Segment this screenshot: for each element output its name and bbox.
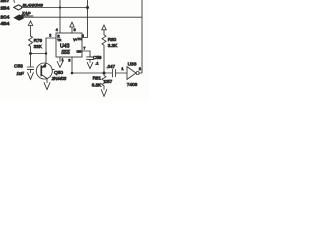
wire riser x60 to 555 pin4 (59, 0, 61, 33)
svg-text:.047: .047 (107, 64, 116, 69)
label R79 33K (34, 38, 43, 49)
svg-text:555: 555 (61, 50, 70, 56)
svg-text:33K: 33K (34, 44, 43, 49)
transistor Q50 (36, 63, 52, 83)
label 2N4403 (51, 76, 67, 81)
pin 3 output (68, 57, 72, 73)
node dot R80 R81 output (103, 72, 106, 75)
svg-text:3.3K: 3.3K (108, 43, 118, 48)
svg-text:U43: U43 (60, 44, 70, 50)
capacitor C58 (27, 54, 33, 73)
ground under Q50 collector (44, 83, 50, 90)
svg-text:2C4: 2C4 (1, 14, 10, 20)
capacitor C57 series (112, 69, 127, 77)
wire ZAP (23, 16, 142, 18)
output flag ZAP (14, 15, 23, 20)
wire BLANKING (22, 7, 88, 9)
node dot at pin4 riser (59, 6, 61, 8)
svg-text:.1: .1 (95, 61, 98, 65)
svg-text:2B4: 2B4 (1, 5, 10, 11)
power arrow above R80 (102, 25, 106, 35)
svg-text:C58: C58 (14, 64, 23, 70)
ground under C58 (28, 73, 34, 80)
svg-text:7406: 7406 (127, 82, 138, 87)
pin 8 power arrow (70, 22, 78, 42)
pin 7 discharge label (77, 47, 86, 54)
ground under C59 (87, 62, 93, 68)
label C58 1uF (14, 64, 24, 77)
svg-text:7: 7 (83, 47, 85, 51)
svg-text:3: 3 (68, 58, 70, 62)
resistor R80 (102, 35, 106, 73)
label R81 6.8K (92, 75, 102, 87)
svg-text:ZAP: ZAP (21, 11, 31, 16)
svg-text:R79: R79 (34, 38, 43, 43)
wire trigger node horizontal (31, 53, 47, 55)
label R80 3.3K (108, 37, 118, 48)
inverter U36 7406 (127, 67, 139, 80)
svg-text:DIS: DIS (77, 49, 82, 53)
net label ZAP (21, 11, 33, 16)
input flag BLANKING (14, 5, 22, 10)
svg-text:2B7: 2B7 (1, 0, 10, 4)
node dot pin3 output (71, 72, 74, 75)
node dot R79 bottom (29, 52, 32, 55)
ground under R81 (101, 89, 107, 96)
resistor R81 (102, 73, 106, 89)
net label BLANKING (23, 3, 43, 8)
pin 6 threshold label (77, 34, 83, 41)
label 2B4 (1, 5, 10, 11)
wire inverter output riser (139, 0, 142, 73)
svg-text:U36: U36 (128, 62, 137, 68)
op-amp U43 555 timer box (56, 33, 82, 57)
wire output to C57 (72, 72, 112, 74)
label .047 C57 (104, 64, 116, 84)
label U36 (128, 62, 137, 68)
wire riser x87 to 555 right pin (82, 0, 88, 38)
power arrow +V above R79 (28, 21, 32, 36)
svg-text:C59: C59 (93, 55, 102, 60)
label 4B4 (1, 21, 10, 27)
node dot trigger junction (45, 52, 47, 54)
wire to Q50 emitter (45, 54, 47, 64)
svg-text:2: 2 (49, 33, 51, 37)
svg-text:TH: TH (77, 37, 81, 41)
resistor R79 (29, 36, 33, 54)
svg-text:4B4: 4B4 (1, 21, 10, 27)
svg-text:Q50: Q50 (54, 70, 63, 76)
svg-text:6: 6 (82, 34, 84, 38)
wire 555 pin7 to C59 (82, 51, 90, 56)
pin 2 trigger label (49, 33, 62, 42)
svg-text:C57: C57 (104, 79, 113, 84)
pin 4 label (56, 28, 61, 39)
svg-text:R81: R81 (93, 75, 102, 80)
node dot BLANKING to riser x87 (86, 6, 89, 9)
label 2C4 (1, 14, 10, 20)
label C59 .1 (93, 55, 102, 65)
label U43 555 (60, 44, 70, 57)
pin 1 label U36 (121, 66, 124, 71)
svg-text:8: 8 (74, 28, 76, 32)
svg-text:R80: R80 (108, 37, 117, 42)
label 2B7 (cut off at top edge) (1, 0, 15, 4)
svg-text:BLANKING: BLANKING (23, 3, 43, 8)
label 7406 (127, 82, 138, 87)
capacitor C59 (87, 57, 94, 63)
label Q50 (52, 69, 63, 76)
svg-text:1uF: 1uF (17, 71, 25, 76)
svg-text:4: 4 (56, 28, 58, 32)
pin 1 ground (57, 57, 63, 67)
pin 2 label U36 (139, 66, 142, 71)
svg-text:6.8K: 6.8K (92, 82, 102, 87)
svg-text:2N4403: 2N4403 (51, 76, 67, 81)
wire to 555 pin2 (46, 38, 56, 54)
